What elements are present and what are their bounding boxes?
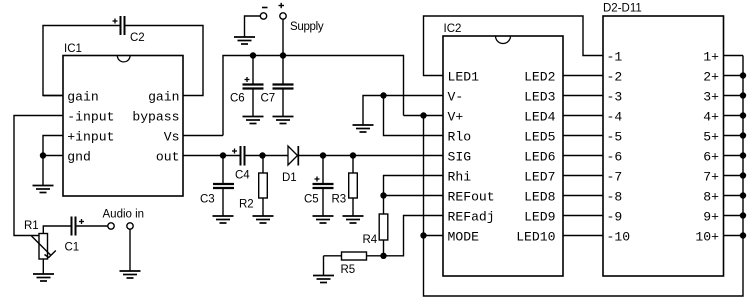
op-amp IC1 (63, 56, 183, 197)
wire out line (183, 155, 443, 157)
potentiometer R1 (32, 234, 56, 260)
junction rail supply (280, 52, 286, 58)
svg-text:-input: -input (67, 110, 114, 125)
wire 8+ to bus (724, 195, 744, 197)
junction bus 7+ (740, 172, 746, 178)
svg-text:D1: D1 (282, 172, 297, 184)
wire LED1 wrap to display (424, 16, 604, 76)
LED driver IC2 (443, 36, 563, 276)
polarity + of C2 (113, 19, 118, 24)
junction V- node (380, 92, 386, 98)
junction bus 8+ (740, 192, 746, 198)
capacitor C2 (121, 16, 125, 35)
wire LED5 to -5 (563, 135, 603, 137)
resistor R4 (379, 196, 388, 256)
svg-text:-7: -7 (607, 170, 623, 185)
junction REFout node (380, 192, 386, 198)
svg-text:-9: -9 (607, 210, 623, 225)
junction V+ node (420, 112, 426, 118)
svg-text:C1: C1 (65, 242, 80, 254)
svg-text:SIG: SIG (448, 150, 472, 165)
svg-text:-5: -5 (607, 130, 623, 145)
terminal audio-in gnd (127, 223, 133, 229)
junction out/R2 (259, 152, 265, 158)
ground (R2) (253, 216, 274, 223)
svg-text:-10: -10 (607, 230, 631, 245)
svg-text:-6: -6 (607, 150, 623, 165)
wire gnd pin (43, 156, 63, 186)
label minus (262, 7, 268, 9)
svg-text:LED4: LED4 (524, 110, 556, 125)
svg-text:-3: -3 (607, 90, 623, 105)
wire LED7 to -7 (563, 175, 603, 177)
svg-text:MODE: MODE (448, 230, 480, 245)
wire LED2 to -2 (563, 75, 603, 77)
junction R4/R5 node (380, 253, 386, 259)
svg-text:-4: -4 (607, 110, 623, 125)
svg-text:Audio in: Audio in (103, 209, 145, 221)
junction bus 9+ (740, 212, 746, 218)
svg-text:LED7: LED7 (524, 170, 555, 185)
wire Rhi to REFout (384, 176, 444, 196)
svg-text:LED6: LED6 (524, 150, 555, 165)
svg-text:LED9: LED9 (524, 210, 555, 225)
svg-text:8+: 8+ (703, 190, 719, 205)
svg-text:1+: 1+ (703, 50, 719, 65)
polarity + of C6 (245, 77, 250, 82)
wire R5 to ground (323, 256, 325, 275)
svg-text:IC1: IC1 (64, 43, 82, 55)
svg-text:gain: gain (148, 90, 179, 105)
wire gain-left loop (43, 26, 120, 96)
svg-text:LED10: LED10 (516, 230, 555, 245)
wire LED10 to -10 (563, 235, 603, 237)
wire V- to Rlo (384, 96, 444, 136)
svg-text:-8: -8 (607, 190, 623, 205)
svg-text:REFadj: REFadj (448, 210, 495, 225)
wire MODE to V+ and bottom rail (424, 56, 744, 297)
svg-text:LED8: LED8 (524, 190, 555, 205)
wire 4+ to bus (724, 115, 744, 117)
svg-text:LED5: LED5 (524, 130, 556, 145)
terminal supply plus (280, 13, 286, 19)
junction out/C3 (220, 152, 226, 158)
LED display D2-D11 (603, 16, 724, 276)
capacitor C7 (273, 56, 294, 117)
svg-text:9+: 9+ (703, 210, 719, 225)
wire 2+ to bus (724, 75, 744, 77)
wire audio gnd (129, 229, 131, 270)
svg-text:C7: C7 (261, 93, 276, 105)
label plus (279, 3, 285, 8)
junction out/R3 (350, 152, 356, 158)
junction gnd node (40, 152, 46, 158)
junction rail C6 (250, 52, 256, 58)
svg-text:6+: 6+ (703, 150, 719, 165)
junction MODE node (420, 232, 426, 238)
svg-text:bypass: bypass (132, 110, 179, 125)
capacitor C6 (243, 56, 264, 117)
svg-text:R2: R2 (239, 199, 254, 211)
diode D1 (288, 146, 298, 166)
svg-text:C6: C6 (230, 93, 245, 105)
svg-text:7+: 7+ (703, 170, 719, 185)
svg-text:gnd: gnd (67, 150, 91, 165)
svg-text:V-: V- (448, 90, 464, 105)
ground (C7) (273, 117, 294, 124)
capacitor C4 (241, 146, 245, 166)
junction bus 5+ (740, 132, 746, 138)
wire REFadj (384, 216, 444, 256)
svg-text:R3: R3 (332, 194, 347, 206)
wire R1 bottom (42, 259, 44, 274)
wire 9+ to bus (724, 215, 744, 217)
svg-text:D2-D11: D2-D11 (603, 3, 642, 15)
wire 1+ to bus (724, 55, 744, 57)
svg-text:-1: -1 (607, 50, 623, 65)
svg-text:R4: R4 (363, 234, 378, 246)
wire C1 to audio terminal (77, 225, 108, 227)
svg-text:R1: R1 (24, 220, 39, 232)
ground (C6) (243, 117, 264, 124)
svg-text:C4: C4 (235, 170, 250, 182)
svg-text:C5: C5 (304, 194, 319, 206)
svg-text:4+: 4+ (703, 110, 719, 125)
wire R1 top to C1 (43, 226, 70, 234)
ground (V-) (353, 125, 374, 132)
junction bus 4+ (740, 112, 746, 118)
wire MODE stub (424, 235, 444, 237)
ground (R1) (33, 274, 54, 281)
junction bus 2+ (740, 72, 746, 78)
polarity + of C5 (315, 177, 320, 182)
terminal supply minus (260, 13, 266, 19)
svg-text:C2: C2 (130, 32, 145, 44)
resistor R5 (324, 252, 384, 260)
svg-text:IC2: IC2 (444, 23, 462, 35)
junction bus 10+ (740, 232, 746, 238)
svg-text:10+: 10+ (695, 230, 719, 245)
wire supply plus down (282, 19, 284, 55)
junction bus 3+ (740, 92, 746, 98)
junction out/C5 (320, 152, 326, 158)
svg-text:LED3: LED3 (524, 90, 556, 105)
svg-text:Rhi: Rhi (448, 170, 472, 185)
capacitor C3 (213, 156, 234, 216)
terminal audio-in hot (108, 223, 114, 229)
svg-text:5+: 5+ (703, 130, 719, 145)
wire gain-right stub (43, 95, 63, 97)
wire C2 right to gain-right (126, 26, 204, 96)
resistor R2 (259, 156, 268, 216)
wire -input (14, 116, 63, 236)
wire 7+ to bus (724, 175, 744, 177)
svg-text:2+: 2+ (703, 70, 719, 85)
wire supply rail (223, 56, 404, 136)
svg-text:+input: +input (67, 130, 114, 145)
svg-text:REFout: REFout (448, 190, 495, 205)
ground (C3) (213, 216, 234, 223)
svg-text:3+: 3+ (703, 90, 719, 105)
svg-text:gain: gain (67, 90, 98, 105)
svg-text:C3: C3 (200, 194, 215, 206)
ground (R3) (343, 216, 364, 223)
wire 5+ to bus (724, 135, 744, 137)
ground (R5) (313, 276, 334, 283)
wire +input to gnd (43, 136, 63, 156)
svg-text:R5: R5 (341, 264, 356, 276)
polarity + of C1 (79, 219, 84, 224)
wire 3+ to bus (724, 95, 744, 97)
ground (supply) (234, 37, 255, 44)
wire 10+ to bus (724, 235, 744, 237)
polarity + of C4 (232, 149, 237, 154)
svg-text:-2: -2 (607, 70, 623, 85)
resistor R3 (349, 156, 358, 216)
ground (IC1 gnd) (33, 186, 54, 193)
wire REFout (384, 195, 444, 197)
wire V- to ground (363, 96, 443, 125)
wire V+ (404, 115, 444, 117)
svg-text:V+: V+ (448, 110, 464, 125)
svg-text:Supply: Supply (290, 21, 324, 33)
svg-text:out: out (156, 150, 180, 165)
ground (audio) (120, 271, 141, 278)
capacitor C5 (313, 156, 334, 216)
svg-text:LED2: LED2 (524, 70, 555, 85)
wire LED8 to -8 (563, 195, 603, 197)
svg-text:Vs: Vs (164, 130, 180, 145)
wire LED6 to -6 (563, 155, 603, 157)
svg-text:LED1: LED1 (448, 70, 480, 85)
wire supply minus to ground (245, 16, 261, 37)
wire LED3 to -3 (563, 95, 603, 97)
junction bus 6+ (740, 152, 746, 158)
wire LED4 to -4 (563, 115, 603, 117)
wire Vs stub (183, 135, 223, 137)
capacitor C1 (72, 217, 76, 236)
wire LED9 to -9 (563, 215, 603, 217)
ground (C5) (313, 216, 334, 223)
wire 6+ to bus (724, 155, 744, 157)
svg-text:Rlo: Rlo (448, 130, 472, 145)
